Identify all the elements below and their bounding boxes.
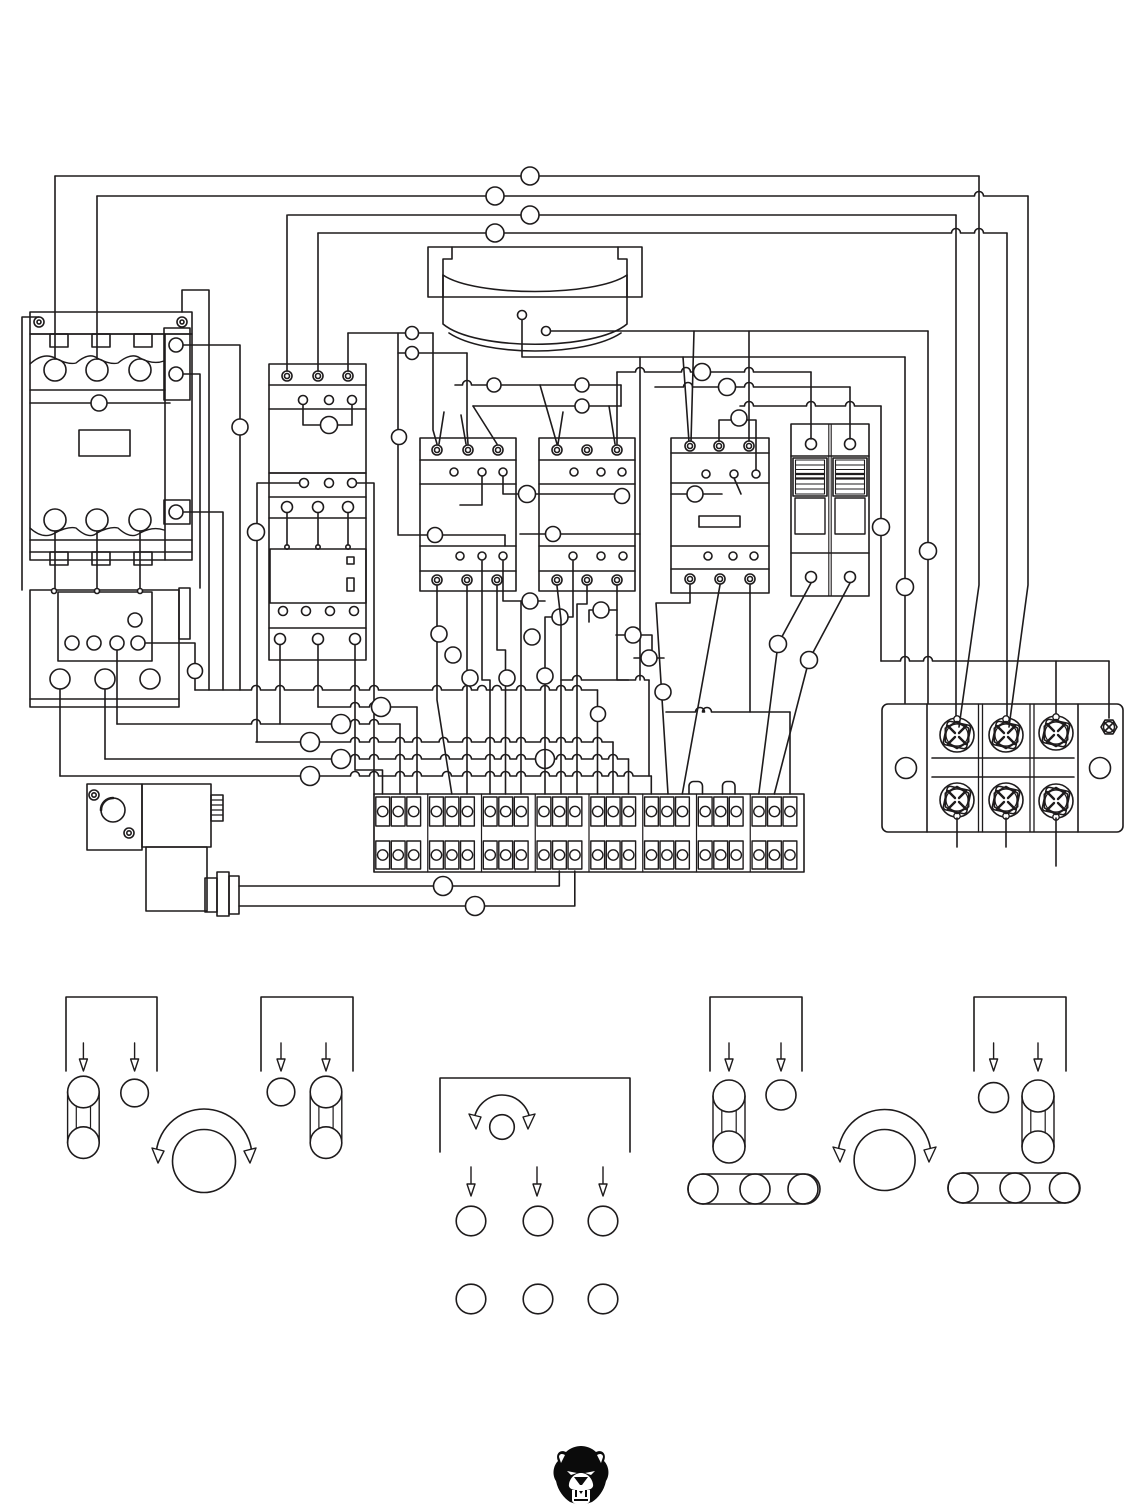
wire KM3 b1 drop [437,586,452,794]
node sec2 circle [920,543,937,560]
node x881 circle [873,519,890,536]
node ctl333 circle [406,327,419,340]
wire fan y776 [60,772,651,777]
solenoid valve Y1 [87,784,142,850]
wire ctl y372 [617,368,811,373]
wire jumper J2 [723,782,736,795]
wire ctl y385 [455,381,621,386]
wire ctl y406 [473,405,621,407]
wire KM1 pole2 up [96,196,98,359]
legend group1 fuse [68,1076,100,1108]
wire L3 top run [288,214,956,216]
wire y406 to C t3 [473,406,497,444]
wire KM1 lower aux to bus [184,512,223,690]
legend group1 lamp [121,1079,149,1107]
wire KM3 r3 drop [503,561,545,601]
wire KM1 pole1 up [54,176,56,359]
legend group4 arrow2 [780,1043,782,1059]
contactor KM3 [420,438,516,591]
wire fan y742 [256,738,613,743]
wire E t3 feed [748,331,750,442]
node L4 label circle [486,224,504,242]
node y759 c1 [332,750,351,769]
Grizzly bear logo [554,1446,609,1505]
legend group3 lamp r1c2 [523,1206,553,1236]
legend group1 arrow2 [134,1043,136,1059]
legend group5 arrow1 [993,1043,995,1059]
wire L2 drop [1009,196,1028,727]
node KM5 bracket circle [731,410,747,426]
wire ctl y333 [348,332,433,334]
legend group1 bracket [66,997,157,1071]
node KM4 circle [615,489,630,504]
wire y680 bridge [561,676,649,681]
contactor KM5 [671,438,769,593]
wire hex branch [1055,661,1057,716]
legend group5 lamp [979,1083,1009,1113]
wire ctl y406b [740,402,881,407]
wire KM4 mid [520,533,640,535]
contactor KM4 [539,438,635,591]
legend group3 arrow3 [602,1167,604,1184]
terminal block TB2 [882,704,1123,832]
node y759 c2 [536,750,555,769]
node decor2 circle [625,627,641,643]
terminal strip TB1 [374,794,804,872]
node aux2 circle [232,419,248,435]
wire Y1 cable2 [239,871,575,906]
overload relay OL1 [30,590,179,707]
wire KM5 b1 diag [656,585,690,794]
wire QF1 b1 diag [759,583,811,794]
wire L4 top run [318,229,1007,234]
wire fan y742 drop [612,742,614,794]
node KM3 b2 circle [462,670,478,686]
wire C t1 second feed [439,412,444,444]
node y742 circle [301,733,320,752]
legend group2 fuse [310,1076,342,1108]
wire KM5 mid [671,493,722,495]
wire KM5 aux diag [734,478,741,494]
wire KM3 mid drop [504,535,506,546]
legend group3 rotation [490,1115,515,1140]
wire ctl y387 [655,383,850,388]
wire KM1 pole1 down [54,531,56,591]
wire fan y776 drop [650,776,652,794]
wire T1 sec2 drop [927,331,929,703]
legend group3 lamp r2c2 [523,1284,553,1314]
legend group5 fuse [1022,1080,1054,1112]
node L3 label circle [521,206,539,224]
node y696 circle [591,707,606,722]
node KM4 mid circle [546,527,561,542]
wire E t1 feed b [691,331,694,442]
wire y712 run [666,708,790,713]
wire KM2 t2 up [317,233,319,371]
contactor KM2 [269,364,366,473]
wire E t1 feed a [683,357,689,442]
wire T1 sec1 drop [904,357,906,703]
node x398 circle [392,430,407,445]
legend group3 arrow1 [470,1167,472,1184]
node KM5 b1 circle [655,684,671,700]
wire KM2 b2 down [317,645,319,707]
wire T1 sec1 [522,320,905,357]
wire L1 drop [959,176,979,727]
legend group4 rotation [854,1130,915,1191]
wire fan y724 drop [399,724,401,794]
wire KM4 b2 drop [577,586,587,794]
legend group2 arrow2 [325,1043,327,1059]
legend group2 arrow1 [280,1043,282,1059]
wire L1 top run [55,175,979,177]
wire Y1 cable1 [239,871,559,886]
legend group3 bracket [440,1078,630,1152]
legend group1 arrow1 [82,1043,84,1059]
wire KM3 aux2 [460,476,482,505]
wire strip feed x490 [482,561,490,794]
wire D t1 second feed [558,412,563,444]
wire KM5 b3 drop [749,585,751,712]
node KM3-KM4 circle [519,486,536,503]
node y385 c2 [575,378,589,392]
legend group4 bracket [710,997,802,1071]
node sec1 circle [897,579,914,596]
wire y387 drop F2 [849,387,851,439]
wire vert x640 [639,357,641,680]
node y372 circle [694,364,711,381]
legend group5 bracket [974,997,1066,1071]
wire OL out3 down [116,650,118,724]
wire y712 drop [789,712,791,794]
node QF1 b1 circle [770,636,787,653]
legend group3 lamp r2c3 [588,1284,618,1314]
node KM3 b1 circle [431,626,447,642]
node y707 circle [372,698,391,717]
legend group2 bracket [261,997,353,1071]
wire KM4 b1 drop [557,586,561,794]
node OL out4 circle [188,664,203,679]
legend group1 rotation [173,1130,236,1193]
wire L4 drop [1006,233,1008,722]
wire fan y759 drop [628,759,630,794]
wire KM3 b3 drop [497,586,506,794]
contactor KM1 [30,312,192,334]
wire T1 sec2 [551,330,928,332]
wire decor3 [634,657,664,659]
wire bus y690 [195,686,598,691]
wire KM1 pole2 down [96,531,98,591]
wire L2 top run [97,192,1028,197]
wire y385 to D t1 [540,385,557,444]
wire TB2 out3 [1055,818,1057,866]
node L2 label circle [486,187,504,205]
legend group4 arrow1 [728,1043,730,1059]
wire y372 drop F1 [810,372,812,439]
wire KM4 r3a drop [545,561,573,794]
node y406 c1 [575,399,589,413]
wire KM3 mid [398,534,505,536]
node KM3 b3 circle [499,670,515,686]
node QF1 b2 circle [801,652,818,669]
legend group4 lamp [766,1080,796,1110]
wire ctl y353 drop [467,353,468,444]
wire KM2 t1 up [286,215,288,371]
wire y385-y406 link [620,385,622,406]
wire KM1 pole3 down [139,531,141,591]
node decor4 circle [524,629,540,645]
wire y680 drop [648,680,650,776]
wire KM1 aux feed [183,374,200,588]
node y387 circle [719,379,736,396]
legend group3 arrow2 [536,1167,538,1184]
wire KM5 bracket [719,420,756,470]
wire jumper J1 [689,782,703,795]
node y385 c1 [487,378,501,392]
wire TB2 out1 [956,818,958,847]
wire KM3 aux jumper [503,476,620,494]
wire TB2 out2 [1005,818,1007,847]
wire ctl y353 [398,352,467,354]
node KM5 mid circle [687,486,703,502]
node y776 circle [301,767,320,786]
node decor1 [593,602,609,618]
wire fan y707 [318,703,417,708]
wire KM1 aux2 to bus [183,345,240,690]
breaker QF1 [791,424,869,596]
node KM3 mid circle [428,528,443,543]
wire OL pole2 down [104,689,106,759]
node KM2 aux circle [248,524,265,541]
wire C t2 second feed [461,415,466,444]
legend group4 fuse [713,1080,745,1112]
wire OL out4 [145,643,195,690]
wire fan y759 [105,755,629,760]
wire KM5 b2 diag [682,585,720,794]
wire KM4 b2 decor [589,610,617,622]
node ctl353 circle [406,347,419,360]
wire QF1 b2 diag [774,583,850,794]
wire vert x398 [397,333,399,534]
wire KM2 b3 down [355,645,383,794]
legend group3 lamp r1c3 [588,1206,618,1236]
wire L3 drop [955,215,957,722]
wire y372 drop D [616,372,618,444]
wire KM3 b2 drop [466,586,468,794]
legend group2 lamp [267,1078,295,1106]
wire ctl y333 drop [433,333,437,444]
node y724 circle [332,715,351,734]
wire KM2 b1 down [279,645,281,724]
wire KM2 aux left [257,483,299,742]
wire D t3 second feed [609,406,615,444]
wire KM4 b3 drop [617,586,629,680]
legend group4 belt [703,1174,805,1204]
transformer T1 [428,247,642,297]
wire bus y690 drop [597,690,599,794]
legend group5 arrow2 [1037,1043,1039,1059]
legend group3 lamp r2c1 [456,1284,486,1314]
legend group5 belt [963,1173,1065,1203]
node decor3 circle [641,650,657,666]
wire KM1 left bracket [22,317,39,590]
wire fan y724 [117,720,400,725]
legend group3 lamp r1c1 [456,1206,486,1236]
node KM4 r3a circle [552,609,568,625]
wire y406b drop [880,406,882,661]
node KM3 b1 circle2 [445,647,461,663]
wire decor2 [616,635,652,662]
wire KM2 t3 up [347,333,349,371]
wire OL pole1 down [59,689,61,776]
wire KM2 aux right [357,483,374,794]
node L1 label circle [521,167,539,185]
node cable2 circle [466,897,485,916]
wire fan y707 drop [416,707,418,794]
node x545 circle [537,668,553,684]
wire KM1 right bracket [182,290,209,690]
node cable1 circle [434,877,453,896]
node KM3 r3 circle [522,593,538,609]
